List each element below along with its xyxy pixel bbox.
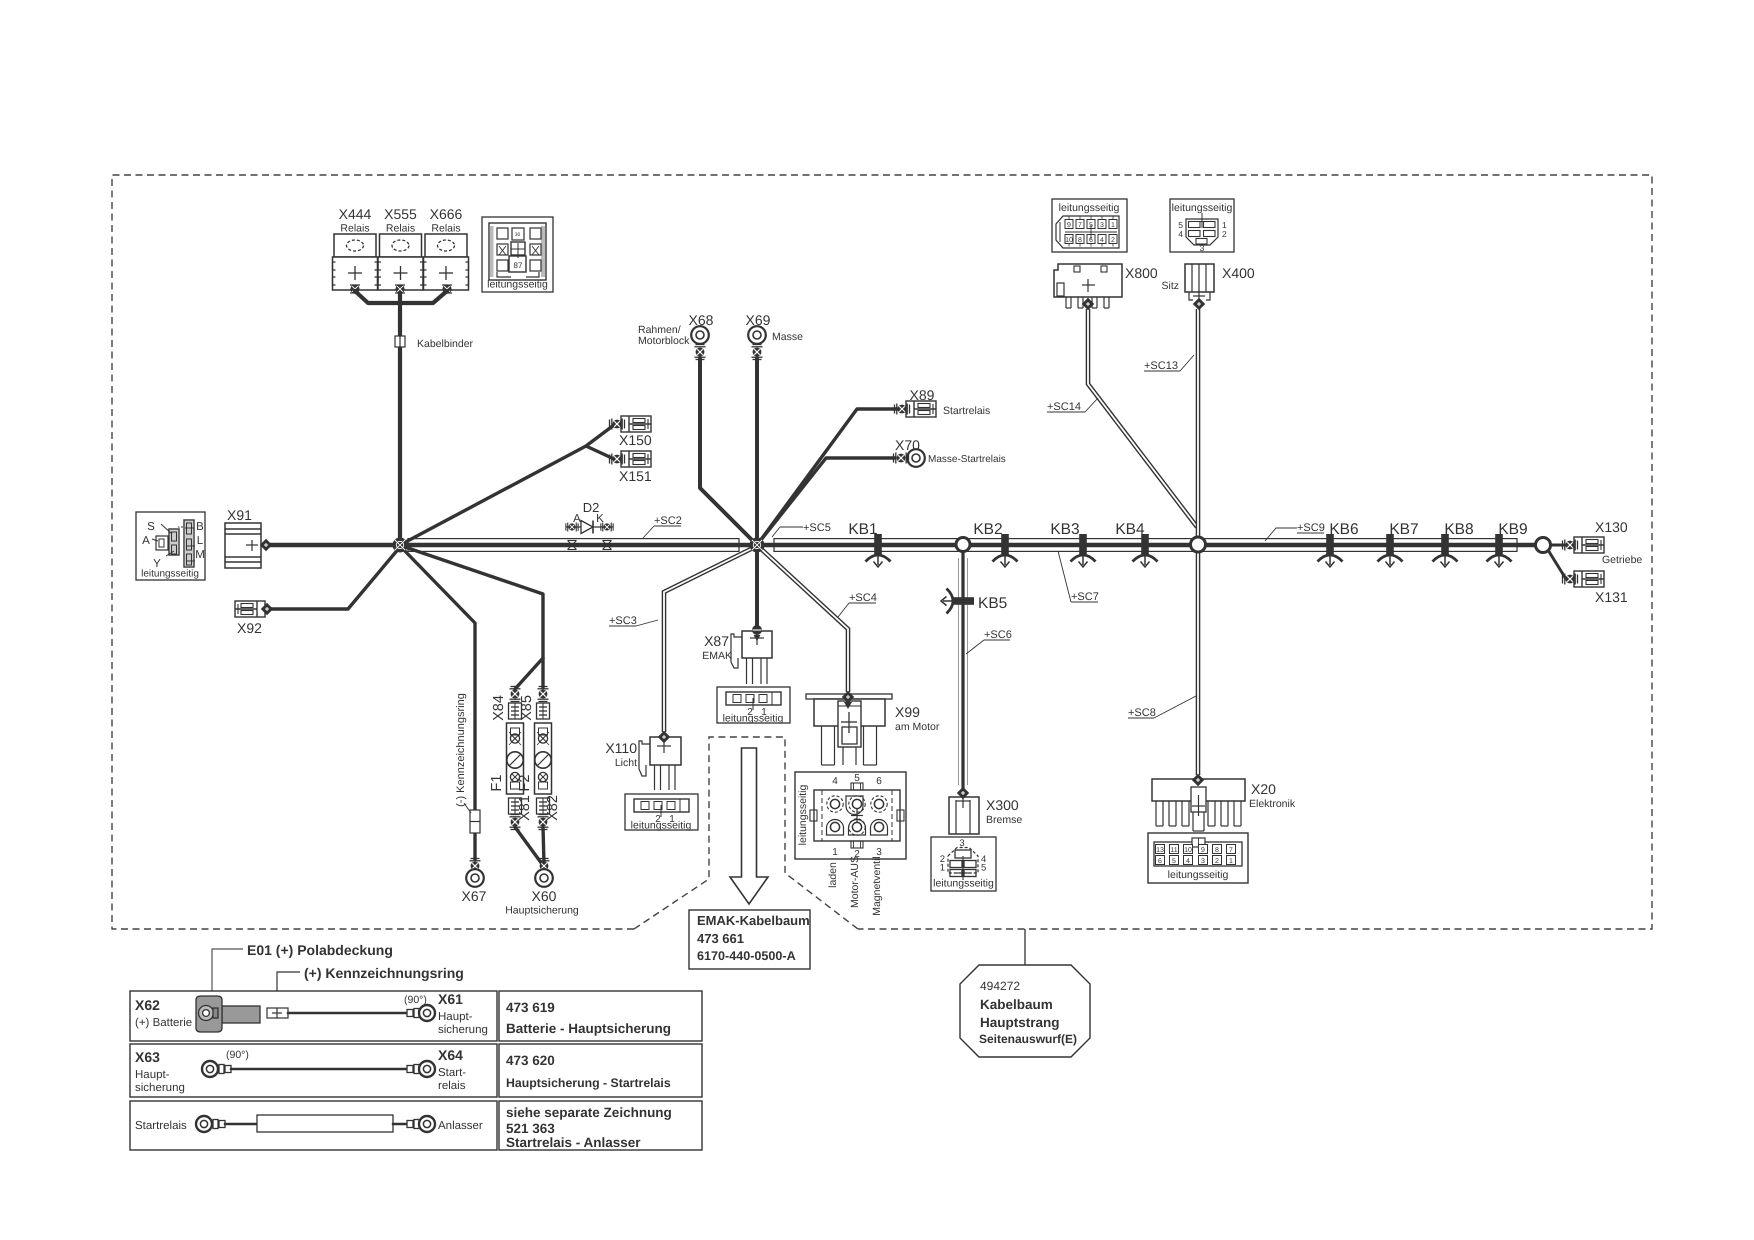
- svg-text:X89: X89: [910, 387, 935, 403]
- wire +SC3 center hub to X110: [664, 547, 755, 732]
- svg-text:E01 (+) Polabdeckung: E01 (+) Polabdeckung: [247, 942, 393, 958]
- branch symbol KB4: [1133, 534, 1158, 567]
- relay connector X555: [378, 234, 423, 290]
- svg-text:+SC9: +SC9: [1297, 522, 1325, 534]
- svg-text:Hauptsicherung: Hauptsicherung: [505, 905, 579, 917]
- svg-text:Batterie - Hauptsicherung: Batterie - Hauptsicherung: [506, 1021, 671, 1036]
- svg-text:Startrelais - Anlasser: Startrelais - Anlasser: [506, 1135, 641, 1150]
- svg-text:Licht: Licht: [615, 757, 637, 769]
- svg-text:9: 9: [1201, 847, 1205, 854]
- label +SC8: [1128, 696, 1196, 718]
- svg-text:X800: X800: [1125, 265, 1158, 281]
- wire relay drop to left hub: [398, 290, 402, 545]
- label +SC5: [772, 527, 803, 537]
- svg-text:Relais: Relais: [431, 223, 460, 235]
- wire cable row3: [225, 1123, 257, 1126]
- node D2 tap junctions on bus: [568, 541, 612, 550]
- branch symbol KB5: [941, 589, 974, 614]
- wire X81 to X60: [515, 827, 542, 864]
- branch symbol KB7: [1378, 534, 1403, 567]
- svg-text:leitungsseitig: leitungsseitig: [631, 820, 692, 832]
- svg-text:+SC14: +SC14: [1047, 401, 1081, 413]
- svg-text:1: 1: [940, 863, 945, 874]
- svg-text:X62: X62: [135, 997, 160, 1013]
- svg-text:leitungsseitig: leitungsseitig: [487, 279, 548, 291]
- svg-text:KB3: KB3: [1050, 521, 1079, 538]
- svg-text:(+) Batterie: (+) Batterie: [135, 1017, 192, 1029]
- svg-text:Startrelais: Startrelais: [943, 405, 990, 417]
- (+) Kennzeichnungsring marker on cable: [267, 1008, 288, 1018]
- wire fork to X84: [515, 658, 543, 689]
- connector X81: [509, 798, 522, 814]
- connector X131: [1574, 571, 1604, 587]
- svg-text:leitungsseitig: leitungsseitig: [1059, 202, 1120, 214]
- svg-text:X64: X64: [438, 1047, 463, 1063]
- svg-text:3: 3: [1100, 222, 1104, 229]
- svg-text:6: 6: [1158, 858, 1162, 865]
- svg-text:relais: relais: [438, 1080, 466, 1092]
- X92 cable terminal: [261, 603, 273, 615]
- wire +SC13 X400 to right hub: [1196, 309, 1201, 538]
- X99 cable terminal: [842, 691, 854, 703]
- dashed frame border with notch around EMAK arrow: [112, 175, 1652, 929]
- ring terminal Anlasser: [407, 1120, 419, 1129]
- connector X87 (EMAK): [731, 631, 772, 684]
- wire center hub to X70: [757, 458, 895, 545]
- svg-text:10: 10: [1184, 847, 1192, 854]
- wire +SC14 X800 to right hub: [1088, 309, 1197, 527]
- svg-text:X400: X400: [1222, 265, 1255, 281]
- svg-text:KB5: KB5: [978, 595, 1007, 612]
- connector X151: [621, 451, 651, 467]
- wire left hub to X67: [401, 547, 475, 860]
- fuse F1: [507, 723, 524, 794]
- X800 pinout detail box (leitungsseitig): [1052, 199, 1127, 252]
- svg-text:KB1: KB1: [848, 521, 877, 538]
- svg-text:(90°): (90°): [226, 1049, 249, 1061]
- terminal X81 crimp: [510, 815, 521, 830]
- svg-text:2: 2: [1111, 237, 1115, 244]
- svg-text:Relais: Relais: [386, 223, 415, 235]
- svg-text:X99: X99: [895, 704, 920, 720]
- svg-text:Bremse: Bremse: [986, 814, 1022, 826]
- X20 pinout detail box (leitungsseitig): [1148, 833, 1248, 883]
- svg-text:X110: X110: [605, 740, 637, 756]
- svg-text:Startrelais: Startrelais: [135, 1120, 187, 1132]
- connector X99 (am Motor): [806, 694, 892, 765]
- svg-text:X92: X92: [237, 620, 262, 636]
- branch symbol KB6: [1318, 534, 1343, 567]
- svg-text:Getriebe: Getriebe: [1602, 554, 1642, 566]
- svg-text:KB4: KB4: [1115, 521, 1145, 538]
- X800 cable terminal: [1082, 298, 1094, 310]
- wire center hub to X87: [755, 552, 759, 626]
- X87 pinout detail box (leitungsseitig): [717, 687, 790, 723]
- svg-text:5: 5: [854, 773, 860, 784]
- X400 cable terminal: [1193, 298, 1205, 310]
- wire +SC8 right hub to X20: [1196, 551, 1201, 775]
- connector X300 (Bremse): [949, 797, 979, 834]
- wire bus end to X130: [1550, 544, 1566, 547]
- svg-text:Motorblock: Motorblock: [638, 335, 690, 347]
- X300 cable terminal: [957, 787, 969, 799]
- ring terminal X61: [407, 1009, 419, 1018]
- node center hub junction: [750, 538, 765, 553]
- svg-text:(90°): (90°): [404, 994, 427, 1006]
- svg-text:X63: X63: [135, 1049, 160, 1065]
- branch symbol KB8: [1433, 534, 1458, 567]
- svg-text:S: S: [147, 521, 155, 533]
- wire main bus sheath outline: [408, 539, 1517, 552]
- X20 cable terminal: [1192, 774, 1204, 786]
- svg-text:521 363: 521 363: [506, 1121, 555, 1136]
- svg-text:5: 5: [1172, 858, 1176, 865]
- relay X444 pin terminal: [350, 284, 360, 293]
- svg-text:2: 2: [1215, 858, 1219, 865]
- svg-text:+SC6: +SC6: [984, 629, 1012, 641]
- svg-text:7: 7: [1078, 222, 1082, 229]
- X99 pinout detail box (leitungsseitig): [795, 772, 906, 859]
- svg-text:1: 1: [1111, 222, 1115, 229]
- wire battery cable row1: [288, 1012, 407, 1015]
- svg-text:Hauptstrang: Hauptstrang: [980, 1015, 1060, 1030]
- svg-text:Haupt-: Haupt-: [438, 1011, 473, 1023]
- svg-text:EMAK-Kabelbaum: EMAK-Kabelbaum: [697, 913, 810, 928]
- label +SC13: [1144, 355, 1194, 371]
- wire X82 to X60: [543, 827, 544, 864]
- X87 cable terminal: [752, 625, 762, 635]
- svg-text:+SC13: +SC13: [1144, 360, 1178, 372]
- (-) Kennzeichnungsring marker: [470, 810, 480, 833]
- svg-text:+SC5: +SC5: [803, 522, 831, 534]
- connector X89 (Startrelais): [906, 401, 936, 417]
- svg-text:leitungsseitig: leitungsseitig: [797, 784, 809, 845]
- branch symbol KB9: [1487, 534, 1512, 567]
- svg-text:87: 87: [514, 261, 523, 270]
- X300 pinout detail box (leitungsseitig): [931, 837, 996, 891]
- relay connector X666: [424, 234, 469, 290]
- svg-text:4: 4: [1186, 858, 1190, 865]
- node left hub junction: [393, 538, 408, 553]
- svg-text:KB7: KB7: [1389, 521, 1418, 538]
- svg-text:1: 1: [832, 847, 838, 858]
- connector X130: [1574, 537, 1604, 553]
- connector X82: [537, 798, 550, 814]
- EMAK harness arrow: [730, 748, 768, 904]
- svg-text:Haupt-: Haupt-: [135, 1069, 170, 1081]
- wire X69 to center hub: [755, 358, 759, 545]
- svg-text:3: 3: [1201, 858, 1205, 865]
- wire main bus centerline: [266, 543, 1543, 548]
- svg-text:X60: X60: [532, 888, 557, 904]
- connector X92: [235, 601, 265, 617]
- svg-text:KB6: KB6: [1329, 521, 1358, 538]
- branch symbol KB1: [866, 534, 891, 567]
- svg-text:B: B: [196, 521, 204, 533]
- part number octagon 494272 Kabelbaum Hauptstrang: [1024, 929, 1026, 965]
- svg-text:473 619: 473 619: [506, 1000, 555, 1015]
- svg-text:4: 4: [1100, 237, 1104, 244]
- svg-text:X69: X69: [746, 312, 771, 328]
- svg-text:2: 2: [1222, 229, 1227, 239]
- svg-text:leitungsseitig: leitungsseitig: [1172, 202, 1233, 214]
- svg-text:Masse-Startrelais: Masse-Startrelais: [928, 454, 1006, 465]
- svg-text:X130: X130: [1595, 519, 1628, 535]
- svg-text:494272: 494272: [980, 979, 1020, 993]
- svg-text:X91: X91: [227, 507, 252, 523]
- cable sleeve row3: [257, 1115, 393, 1132]
- svg-text:Seitenauswurf(E): Seitenauswurf(E): [979, 1032, 1077, 1046]
- svg-text:X20: X20: [1251, 781, 1276, 797]
- svg-text:sicherung: sicherung: [438, 1024, 488, 1036]
- label +SC14: [1047, 398, 1098, 412]
- svg-text:473 620: 473 620: [506, 1053, 555, 1068]
- svg-text:4: 4: [832, 776, 838, 787]
- ring terminal X70 (Masse-Startrelais): [907, 449, 925, 467]
- wire center hub to X89: [757, 409, 901, 545]
- svg-text:KB8: KB8: [1444, 521, 1473, 538]
- svg-text:+SC8: +SC8: [1128, 707, 1156, 719]
- X151 crimp terminal: [610, 454, 625, 465]
- connector X400 (Sitz): [1185, 264, 1214, 301]
- svg-text:+SC7: +SC7: [1071, 591, 1099, 603]
- relay X555 pin terminal: [395, 284, 405, 293]
- svg-text:F2: F2: [517, 775, 533, 792]
- connector X110 (Licht): [639, 737, 681, 790]
- connector X91: [225, 523, 261, 568]
- label +SC9: [1265, 528, 1324, 541]
- label E01 (+) Polabdeckung with leader: [212, 949, 243, 996]
- branch symbol KB3: [1071, 534, 1096, 567]
- svg-text:8: 8: [1078, 237, 1082, 244]
- label +SC4: [838, 603, 876, 617]
- X91 key-switch pinout detail box (leitungsseitig): [136, 512, 205, 580]
- cable tie Kabelbinder marker: [395, 336, 405, 347]
- EMAK-Kabelbaum label box: [689, 910, 810, 969]
- svg-text:Kabelbinder: Kabelbinder: [417, 338, 474, 350]
- svg-text:8: 8: [1215, 847, 1219, 854]
- svg-text:Anlasser: Anlasser: [438, 1120, 483, 1132]
- svg-text:1: 1: [1229, 858, 1233, 865]
- svg-text:13: 13: [1156, 847, 1164, 854]
- wire +SC4 center hub to X99: [759, 547, 848, 692]
- wire fork to X151: [586, 446, 614, 459]
- svg-text:A: A: [142, 535, 150, 547]
- wire X68 to center hub: [700, 358, 757, 545]
- svg-text:X87: X87: [704, 633, 729, 649]
- svg-text:+SC3: +SC3: [609, 615, 637, 627]
- svg-text:X70: X70: [895, 437, 920, 453]
- connector X85: [537, 703, 550, 719]
- svg-text:(+) Kennzeichnungsring: (+) Kennzeichnungsring: [304, 965, 464, 981]
- svg-text:Elektronik: Elektronik: [1249, 798, 1296, 810]
- svg-text:Relais: Relais: [340, 223, 369, 235]
- svg-text:X131: X131: [1595, 589, 1628, 605]
- svg-text:X555: X555: [384, 206, 417, 222]
- svg-text:laden: laden: [827, 862, 839, 888]
- wire left hub to X84/X85 fork: [402, 546, 543, 688]
- svg-text:Kabelbaum: Kabelbaum: [980, 997, 1053, 1012]
- node right hub ring junction: [1191, 537, 1206, 552]
- diode D2 assembly: [566, 521, 613, 534]
- label +SC6: [966, 640, 1010, 654]
- svg-text:X444: X444: [339, 206, 372, 222]
- svg-text:leitungsseitig: leitungsseitig: [723, 713, 784, 725]
- ring terminal X69 (Masse): [748, 326, 766, 344]
- svg-text:+SC2: +SC2: [654, 515, 682, 527]
- node KB2 branch ring junction: [956, 538, 970, 552]
- svg-text:L: L: [197, 535, 204, 547]
- svg-text:M: M: [195, 549, 205, 561]
- svg-text:6170-440-0500-A: 6170-440-0500-A: [697, 949, 796, 963]
- svg-text:X67: X67: [462, 888, 487, 904]
- fuse F2: [535, 723, 552, 794]
- relay connector X444: [333, 234, 378, 290]
- svg-text:9: 9: [1067, 222, 1071, 229]
- svg-text:leitungsseitig: leitungsseitig: [141, 569, 199, 580]
- X110 pinout detail box (leitungsseitig): [625, 794, 698, 830]
- terminal X85 crimp: [538, 687, 549, 702]
- svg-text:X84: X84: [491, 695, 507, 721]
- svg-text:Hauptsicherung - Startrelais: Hauptsicherung - Startrelais: [506, 1076, 671, 1090]
- svg-text:KB9: KB9: [1498, 521, 1527, 538]
- connector X150: [621, 416, 651, 432]
- svg-text:11: 11: [1170, 847, 1177, 854]
- terminal X82 crimp: [538, 815, 549, 830]
- relay X666 pin terminal: [442, 284, 452, 293]
- D2 anode terminal A: [566, 522, 578, 531]
- ring terminal X68 (Rahmen/Motorblock): [691, 326, 709, 344]
- svg-text:3: 3: [959, 838, 964, 849]
- wire cable row2: [231, 1068, 407, 1071]
- svg-text:4: 4: [1178, 229, 1183, 239]
- svg-text:3: 3: [1200, 243, 1205, 253]
- X110 cable terminal: [658, 731, 670, 743]
- svg-text:KB2: KB2: [973, 521, 1002, 538]
- svg-text:6: 6: [876, 776, 882, 787]
- relay socket pinout detail box (leitungsseitig): [482, 217, 553, 292]
- svg-text:sicherung: sicherung: [135, 1082, 185, 1094]
- wire left hub to X92: [271, 547, 400, 609]
- ring terminal X64: [407, 1065, 419, 1074]
- svg-text:X150: X150: [619, 432, 652, 448]
- wire KB5 branch to X300: [958, 558, 960, 785]
- connector X20 (Elektronik): [1152, 779, 1245, 831]
- X150 crimp terminal: [610, 419, 625, 430]
- wire relay X444 to drop: [355, 291, 400, 303]
- svg-text:F1: F1: [489, 775, 505, 792]
- wire left hub to X150/X151 fork: [400, 425, 614, 545]
- svg-text:siehe separate Zeichnung: siehe separate Zeichnung: [506, 1105, 672, 1120]
- label +SC7: [1058, 551, 1098, 602]
- table row boxes: [130, 991, 702, 1150]
- connector X800: [1054, 264, 1122, 308]
- wire bus end to X131: [1548, 550, 1566, 579]
- svg-text:X85: X85: [519, 695, 535, 721]
- svg-text:Motor-AUS: Motor-AUS: [849, 856, 861, 908]
- svg-text:7: 7: [1229, 847, 1233, 854]
- D2 cathode terminal K: [601, 522, 613, 531]
- svg-text:A: A: [573, 513, 581, 525]
- svg-text:473 661: 473 661: [697, 931, 744, 946]
- svg-text:Masse: Masse: [772, 331, 803, 343]
- X91 cable terminal: [260, 539, 272, 551]
- X400 pinout detail box (leitungsseitig): [1170, 199, 1234, 252]
- node bus end ring: [1536, 538, 1551, 553]
- svg-text:Sitz: Sitz: [1161, 280, 1179, 292]
- svg-text:30: 30: [515, 232, 521, 238]
- label +SC2: [643, 526, 681, 538]
- label +SC3: [609, 620, 658, 626]
- svg-text:X61: X61: [438, 991, 463, 1007]
- svg-text:Start-: Start-: [438, 1067, 466, 1079]
- svg-text:leitungsseitig: leitungsseitig: [1168, 869, 1229, 881]
- ring terminal X67: [470, 859, 481, 874]
- label (+) Kennzeichnungsring with leader: [277, 972, 300, 1008]
- svg-text:X68: X68: [689, 312, 714, 328]
- svg-text:Magnetventil: Magnetventil: [871, 856, 883, 916]
- branch symbol KB2: [993, 534, 1018, 567]
- svg-text:EMAK: EMAK: [702, 650, 732, 662]
- svg-text:am Motor: am Motor: [895, 721, 940, 733]
- svg-text:5: 5: [981, 863, 986, 874]
- svg-text:X151: X151: [619, 468, 652, 484]
- wire relay X666 to drop: [400, 291, 447, 303]
- svg-text:X666: X666: [430, 206, 463, 222]
- svg-text:(-) Kennzeichnungsring: (-) Kennzeichnungsring: [455, 693, 467, 807]
- ring terminal X60 (Hauptsicherung): [539, 859, 550, 874]
- terminal X84 crimp: [510, 687, 521, 702]
- svg-text:X300: X300: [986, 797, 1019, 813]
- svg-text:leitungsseitig: leitungsseitig: [933, 878, 994, 890]
- svg-text:+SC4: +SC4: [849, 592, 877, 604]
- svg-text:10: 10: [1065, 237, 1073, 244]
- connector X84: [509, 703, 522, 719]
- svg-text:K: K: [596, 513, 604, 525]
